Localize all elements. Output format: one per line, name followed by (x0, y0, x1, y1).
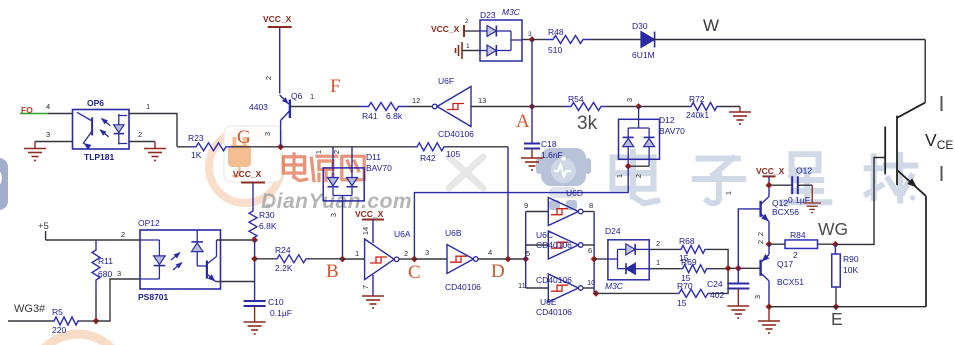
resistor R5 (52, 317, 80, 325)
resistor R48 (546, 36, 590, 44)
wire Q6 collector down (280, 121, 282, 147)
svg-text:D24: D24 (605, 226, 621, 236)
svg-text:U6D: U6D (566, 188, 583, 198)
probe bar top (941, 96, 943, 111)
wire IGBT emitter down to E row (925, 196, 927, 307)
wire U6F input pin13 to node A (471, 106, 532, 108)
svg-text:1: 1 (314, 150, 323, 154)
power VCC_X above U6A (362, 219, 384, 221)
junction R90 at E row (833, 303, 840, 310)
svg-text:C10: C10 (268, 297, 284, 307)
svg-text:5: 5 (526, 249, 530, 258)
resistor R69 (681, 265, 709, 273)
watermark dianyuan chinese characters (283, 154, 306, 181)
svg-text:U6F: U6F (438, 76, 454, 86)
ground at C12 (803, 203, 821, 213)
wire R41 to U6F output pin 12 (407, 106, 432, 108)
svg-text:U6B: U6B (445, 228, 462, 238)
wire emitters to R84 (769, 243, 785, 245)
svg-text:13: 13 (478, 96, 486, 105)
svg-text:O12: O12 (796, 166, 812, 176)
svg-text:G: G (237, 127, 251, 148)
wire G row down to D11 left (332, 147, 334, 168)
svg-text:2: 2 (793, 250, 798, 260)
svg-text:PS8701: PS8701 (138, 292, 169, 302)
wire node down (254, 240, 256, 301)
svg-text:12: 12 (412, 96, 420, 105)
svg-text:CD40106: CD40106 (445, 282, 481, 292)
wire OP12 bottom-right pin (216, 281, 221, 283)
svg-text:R69: R69 (681, 257, 697, 267)
wire VCC to Q12 collector (768, 176, 770, 196)
svg-text:Q6: Q6 (291, 91, 303, 101)
svg-text:14: 14 (361, 227, 370, 235)
wire U6E output (583, 287, 594, 289)
svg-text:R72: R72 (689, 94, 705, 104)
wire VCC branch to C12 (769, 184, 792, 186)
svg-text:1: 1 (615, 174, 624, 178)
svg-text:R84: R84 (790, 230, 806, 240)
svg-text:9: 9 (524, 201, 528, 210)
wire D24 pin1 to R69 (649, 268, 680, 270)
ground below C24 (727, 306, 749, 318)
svg-text:M3C: M3C (502, 7, 521, 17)
svg-text:1: 1 (310, 92, 314, 101)
wire +5 row (46, 239, 140, 241)
svg-text:D11: D11 (366, 152, 381, 162)
wire Q17 collector down (768, 281, 770, 307)
svg-text:C18: C18 (541, 139, 557, 149)
watermark robot icon partial left edge (0, 158, 8, 210)
wire VCC to R30 (252, 183, 254, 210)
power VCC_X at Q12 (763, 175, 776, 177)
ground at OP6 pin2 (154, 142, 156, 149)
svg-text:VCC_X: VCC_X (263, 14, 292, 24)
junction R30 bottom (251, 237, 258, 244)
wire R11 bottom (95, 290, 97, 321)
resistor R11 (92, 240, 100, 290)
wire U6C output (583, 244, 594, 246)
transistor Q17 (BCX51) (759, 254, 769, 281)
wire stack input rail (525, 212, 527, 289)
svg-text:E: E (831, 309, 843, 329)
watermark DianYuan.com text (266, 204, 271, 209)
junction output rail at D24 (591, 256, 598, 263)
resistor R41 (360, 103, 407, 111)
wire R54 to D12 junction (606, 106, 639, 108)
svg-text:2: 2 (332, 150, 341, 154)
wire R24 to node B (308, 258, 343, 260)
svg-text:R41: R41 (362, 111, 378, 121)
power VCC_X for Q6 (268, 26, 292, 28)
svg-text:1: 1 (355, 249, 359, 258)
capacitor C12 (791, 176, 793, 194)
resistor R23 (190, 143, 232, 151)
svg-text:3: 3 (625, 98, 634, 102)
svg-text:1: 1 (724, 191, 733, 195)
wire E row (769, 306, 926, 308)
svg-text:D23: D23 (480, 10, 496, 20)
wire R68 right (707, 249, 728, 293)
svg-text:R24: R24 (275, 245, 291, 255)
svg-text:VCC_X: VCC_X (756, 166, 785, 176)
svg-text:BCX56: BCX56 (772, 207, 799, 217)
svg-text:105: 105 (446, 149, 460, 159)
svg-text:CD40106: CD40106 (536, 275, 572, 285)
svg-text:+5: +5 (38, 221, 49, 232)
inverter U6F (CD40106) (432, 87, 471, 127)
resistor R30 (249, 209, 257, 240)
svg-text:7: 7 (361, 285, 370, 289)
wire Q12 emitter down (768, 222, 770, 245)
svg-text:3: 3 (425, 248, 429, 257)
ground below Q17 (768, 307, 770, 321)
svg-text:11: 11 (518, 281, 526, 290)
inverter U6A (CD40106) (365, 239, 399, 280)
inverter U6D (CD40106) (548, 198, 583, 226)
wire B row to U6A (343, 258, 365, 260)
junction VCC/C12 branch (766, 182, 773, 189)
svg-text:6.8k: 6.8k (386, 111, 403, 121)
junction node C (411, 256, 418, 263)
svg-text:240k1: 240k1 (686, 110, 709, 120)
svg-text:CD40106: CD40106 (438, 129, 474, 139)
svg-text:U6E: U6E (540, 297, 557, 307)
wire C10 to ground (254, 306, 256, 322)
dual diode D23 (480, 20, 522, 61)
svg-text:TLP181: TLP181 (84, 152, 115, 162)
svg-text:BCX51: BCX51 (777, 277, 804, 287)
svg-text:CD40106: CD40106 (536, 240, 572, 250)
dual diode D11 (BAV70) (323, 168, 364, 201)
svg-text:402: 402 (710, 290, 724, 300)
svg-text:M3C: M3C (605, 281, 624, 291)
optocoupler OP12 (140, 230, 221, 289)
ground (sideways) at D23 pin1 (456, 42, 463, 59)
svg-text:510: 510 (548, 45, 562, 55)
wire D11 pin3 down to B row (342, 201, 344, 259)
wire D12 to node C net (414, 166, 628, 259)
svg-text:W: W (703, 16, 719, 35)
wire OP6 pin2 (129, 141, 155, 143)
svg-text:6: 6 (588, 246, 592, 255)
watermark X mark (449, 157, 483, 188)
svg-text:R90: R90 (843, 254, 859, 264)
svg-text:R48: R48 (548, 27, 564, 37)
junction W row (529, 36, 536, 43)
ground at OP6 pin3 (34, 142, 36, 149)
svg-text:B: B (326, 261, 339, 282)
resistor R90 (834, 244, 836, 254)
resistor R54 (566, 103, 606, 111)
watermark robot icon (536, 148, 591, 210)
wire C12 to ground (798, 184, 812, 186)
wire input U6C (526, 244, 549, 246)
wire R48 to D30 (590, 39, 641, 41)
svg-text:680: 680 (98, 269, 112, 279)
wire G row down to D11 right (351, 147, 353, 168)
junction R5/R11 (93, 318, 100, 325)
svg-text:6U1M: 6U1M (632, 50, 655, 60)
wire D23 pin3 to junction (522, 39, 532, 41)
wire junction to R72 (639, 106, 689, 108)
svg-text:3: 3 (46, 130, 50, 139)
wire VCC to Q6 emitter (279, 27, 281, 94)
svg-text:R70: R70 (677, 281, 693, 291)
wire node A to R54 (532, 106, 566, 108)
wire corner down to node D (507, 147, 509, 259)
svg-text:R54: R54 (568, 94, 584, 104)
transistor Q6 (280, 95, 291, 121)
wire stack output rail (593, 212, 595, 294)
svg-text:2: 2 (121, 230, 125, 239)
wire input U6D (526, 211, 549, 213)
svg-text:C: C (408, 262, 421, 283)
inverter U6B (CD40106) (447, 245, 478, 274)
inverter U6C (CD40106) (548, 231, 583, 259)
svg-text:8: 8 (589, 201, 593, 210)
wire Q17 emitter up to junction (768, 244, 770, 254)
wire input U6E (526, 287, 549, 289)
svg-text:1: 1 (656, 258, 660, 267)
optocoupler OP6 (73, 110, 130, 150)
capacitor C10 (244, 300, 266, 302)
junction emitters (766, 241, 773, 248)
svg-text:U6A: U6A (394, 229, 411, 239)
wire W corner down to IGBT collector (924, 40, 926, 103)
svg-text:6.8K: 6.8K (259, 221, 277, 231)
transistor Q12 (BCX56) (761, 197, 772, 224)
svg-text:U6C: U6C (536, 230, 553, 240)
svg-text:VCE: VCE (925, 130, 953, 152)
wire OP12 top-right pin to R30 node (217, 239, 255, 241)
ground below U6A (362, 296, 384, 308)
wire U6D output (583, 211, 594, 213)
svg-text:A: A (516, 111, 530, 132)
wire base row (728, 267, 761, 269)
wire W row to right edge (653, 39, 925, 41)
wire R69 right (709, 268, 729, 270)
svg-text:2.2K: 2.2K (275, 263, 293, 273)
wire junction to OP12 pin3 (96, 279, 140, 321)
svg-text:1: 1 (146, 102, 150, 111)
svg-text:C24: C24 (707, 279, 723, 289)
wire junction to R48 (532, 39, 546, 41)
junction base node left (725, 265, 732, 272)
svg-text:OP6: OP6 (87, 98, 104, 108)
node A junction (529, 103, 536, 110)
svg-text:F: F (330, 76, 341, 97)
svg-text:220: 220 (52, 325, 66, 335)
probe bar bottom (941, 166, 943, 181)
wire R42 to corner (446, 146, 508, 148)
junction D12 pin3 (635, 103, 642, 110)
svg-text:1: 1 (466, 43, 470, 50)
svg-text:BAV70: BAV70 (366, 163, 392, 173)
wire D24 pin2 to R68 (649, 248, 679, 250)
wire WG to gate riser (835, 158, 885, 245)
IGBT VT (885, 103, 926, 197)
wire FO to OP6 pin4 (48, 113, 73, 115)
svg-text:D: D (491, 261, 505, 282)
wire D to inverter stack rail (508, 258, 526, 260)
wire R72 to ground (719, 106, 740, 108)
capacitor C18 (524, 143, 540, 145)
wire C to U6B input (414, 258, 447, 260)
wire junction down to node A (531, 40, 533, 107)
watermark dianzi xingqiu characters (612, 152, 657, 203)
wire G row to Q6 collector (232, 146, 281, 148)
svg-text:0.1µF: 0.1µF (270, 308, 292, 318)
svg-text:R11: R11 (98, 256, 113, 266)
power VCC_X above R30 (241, 182, 265, 184)
wire C24 to ground (737, 289, 739, 307)
dual diode D12 (BAV70) (619, 107, 660, 167)
svg-text:R23: R23 (188, 133, 204, 143)
junction node D (505, 256, 512, 263)
wire Q6 base to R41 (290, 106, 360, 108)
wire base riser to Q12 (738, 209, 760, 268)
watermark dianyuan ring logo (209, 126, 282, 203)
wire node A down to C18 (531, 107, 533, 144)
svg-text:D12: D12 (659, 115, 675, 125)
junction Q6 collector (277, 143, 284, 150)
ground after R72 (739, 107, 741, 113)
wire G row to D11 area (281, 146, 415, 148)
junction R24 branch (251, 255, 258, 262)
watermark partial ring bottom-left (32, 334, 124, 345)
wire U6A output to junction C (399, 258, 414, 260)
wire R90 to E row (835, 287, 837, 307)
wire gnd to D23 pin1 (462, 50, 480, 52)
wire U6B output to node D (478, 258, 508, 260)
wire R5 to junction (80, 320, 96, 322)
wire R84 to WG node (818, 243, 836, 245)
svg-text:4: 4 (488, 248, 492, 257)
svg-text:VCC_X: VCC_X (355, 209, 384, 219)
svg-text:4403: 4403 (249, 102, 268, 112)
junction base node right (735, 265, 742, 272)
junction Q17 collector at E row (766, 303, 773, 310)
svg-text:2: 2 (656, 239, 660, 248)
svg-text:2: 2 (465, 18, 469, 25)
resistor R70 (677, 289, 710, 297)
svg-text:VCC_X: VCC_X (233, 169, 262, 179)
resistor R68 (679, 245, 707, 253)
svg-text:CD40106: CD40106 (536, 307, 572, 317)
wire OP6 pin1 to corner (129, 114, 177, 147)
junction D12 anodes (625, 163, 632, 170)
svg-text:3: 3 (753, 295, 762, 299)
svg-text:3: 3 (329, 213, 338, 217)
svg-text:2: 2 (634, 174, 643, 178)
svg-text:2: 2 (756, 240, 765, 244)
svg-text:3k: 3k (577, 113, 598, 134)
wire VCC to U6A pin 14 (372, 220, 374, 244)
diode D30 (641, 32, 655, 48)
wire G row left (177, 146, 190, 148)
resistor R72 (689, 103, 719, 111)
svg-text:15: 15 (677, 298, 687, 308)
wire VCC to D23 pin2 (464, 30, 480, 32)
junction D11 at B row (339, 256, 346, 263)
svg-text:WG3#: WG3# (14, 303, 46, 315)
junction output rail bottom (593, 290, 600, 297)
svg-text:VCC_X: VCC_X (431, 24, 460, 34)
svg-text:3: 3 (263, 132, 272, 136)
ground below C18 (521, 158, 543, 170)
wire U6A pin7 to ground (372, 275, 374, 296)
resistor R24 (255, 258, 275, 260)
svg-text:BAV70: BAV70 (659, 126, 685, 136)
resistor R84 (785, 240, 818, 249)
wire C18 to ground (531, 149, 533, 159)
svg-text:1K: 1K (191, 150, 202, 160)
svg-text:2: 2 (756, 232, 765, 236)
svg-text:R42: R42 (420, 153, 436, 163)
svg-text:4: 4 (46, 102, 50, 111)
svg-text:D30: D30 (632, 21, 648, 31)
ground below C10 (244, 322, 266, 334)
svg-text:2: 2 (404, 249, 408, 258)
svg-text:R68: R68 (679, 236, 695, 246)
svg-text:OP12: OP12 (138, 218, 160, 228)
svg-text:10K: 10K (843, 265, 858, 275)
wire OP6 pin3 (35, 141, 73, 143)
svg-text:Q17: Q17 (777, 259, 793, 269)
capacitor C24 (737, 268, 739, 283)
wire WG3 row (8, 320, 52, 322)
wire rail to D24 (594, 258, 608, 260)
inverter U6E (CD40106) (548, 274, 583, 302)
svg-text:2: 2 (264, 76, 273, 80)
resistor R42 (415, 143, 446, 151)
wire FO input (green) (20, 113, 48, 115)
svg-text:1.6nF: 1.6nF (541, 150, 563, 160)
wire R30 to junction (252, 239, 254, 241)
svg-text:R5: R5 (52, 307, 63, 317)
junction stack rail (522, 256, 529, 263)
dual diode D24 (M3C) (608, 240, 649, 280)
junction WG (832, 241, 839, 248)
svg-text:2: 2 (138, 130, 142, 139)
svg-text:R30: R30 (259, 210, 275, 220)
wire rail bottom to R70 row (594, 292, 677, 294)
svg-text:3: 3 (117, 269, 121, 278)
svg-text:WG: WG (818, 219, 848, 239)
